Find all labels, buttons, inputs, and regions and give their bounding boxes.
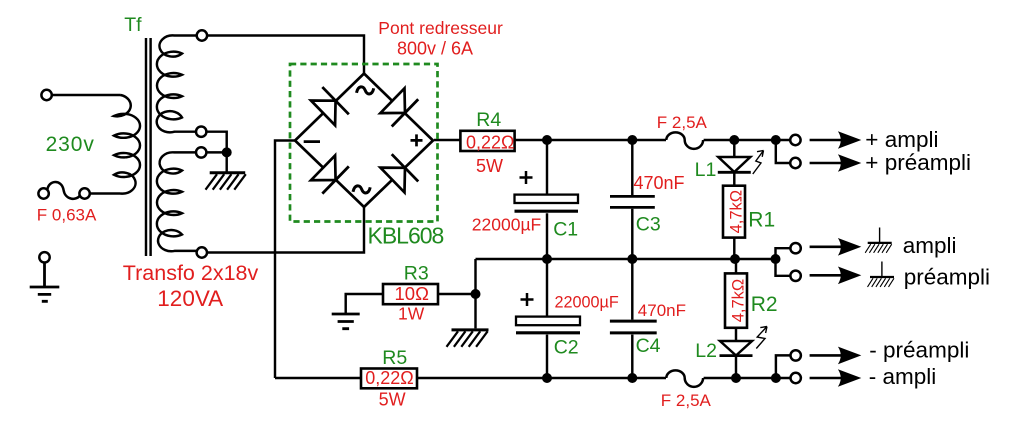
LED L2 flash arrow: [756, 327, 767, 349]
fuse F 2,5A top: [666, 132, 703, 148]
svg-text:C1: C1: [553, 219, 578, 241]
green labels: [46, 14, 778, 369]
transformer core: [146, 38, 151, 256]
ground small ampli output: [865, 228, 892, 253]
svg-text:5W: 5W: [476, 156, 503, 176]
node negative rail at C4: [627, 373, 637, 383]
terminal ground preampli: [790, 271, 800, 281]
svg-text:470nF: 470nF: [634, 173, 685, 193]
svg-text:C2: C2: [554, 337, 579, 359]
terminal center tap 1: [196, 127, 206, 137]
resistor R4: [460, 131, 514, 151]
secondary winding bottom: [157, 152, 197, 251]
node center-tap junction: [222, 147, 232, 157]
svg-text:+ préampli: + préampli: [865, 150, 971, 175]
tilde AC mark bottom: [353, 186, 370, 193]
terminal - preampli: [791, 350, 801, 360]
ground hatched under center tap: [206, 173, 246, 190]
svg-text:R5: R5: [382, 347, 407, 369]
LED L1: [718, 157, 750, 172]
wire center tap ground stem: [225, 152, 227, 171]
diode D4 bottom-right: [379, 154, 418, 193]
terminal - ampli: [791, 373, 801, 383]
node negative output branch: [771, 373, 781, 383]
capacitor C1 electrolytic plates: [515, 195, 579, 203]
minus sign bridge: [304, 140, 320, 143]
node negative rail at C2: [542, 373, 552, 383]
svg-text:+ ampli: + ampli: [865, 127, 938, 152]
svg-text:L2: L2: [695, 340, 717, 362]
diode D1 top-left: [310, 87, 349, 126]
wire negative rail right: [704, 377, 790, 379]
node ground rail at R1/R2: [730, 254, 740, 264]
svg-text:C3: C3: [636, 214, 661, 236]
arrow - ampli shaft: [810, 377, 844, 380]
secondary winding top: [157, 35, 197, 132]
svg-text:1W: 1W: [398, 304, 425, 324]
plus sign C1: [520, 171, 533, 184]
arrow ground preampli shaft: [810, 274, 844, 277]
wire branch ground ampli: [776, 248, 790, 259]
wire C1 column: [546, 140, 548, 259]
capacitor C2 electrolytic plates: [516, 317, 580, 326]
capacitor C4 plates: [610, 321, 657, 333]
svg-text:120VA: 120VA: [157, 286, 223, 311]
bridge rectifier diamond: [295, 74, 433, 208]
svg-text:Tf: Tf: [124, 14, 142, 36]
svg-text:ampli: ampli: [903, 233, 957, 258]
primary winding of transformer Tf: [114, 95, 140, 194]
node positive rail at C1: [542, 135, 552, 145]
svg-text:22000µF: 22000µF: [555, 294, 619, 312]
red labels: [37, 18, 748, 410]
fuse F input 0,63A: [47, 182, 80, 199]
terminal 230v neutral input: [38, 188, 48, 198]
svg-text:10Ω: 10Ω: [395, 283, 430, 304]
svg-text:4,7kΩ: 4,7kΩ: [729, 279, 747, 323]
ground small preampli output: [868, 262, 895, 287]
svg-text:F 0,63A: F 0,63A: [37, 205, 97, 224]
svg-text:- ampli: - ampli: [869, 364, 937, 389]
svg-text:4,7kΩ: 4,7kΩ: [727, 190, 745, 234]
terminal secondary top: [197, 30, 207, 40]
ground hatched under middle rail node: [447, 330, 489, 347]
svg-text:R3: R3: [404, 262, 429, 284]
svg-text:22000µF: 22000µF: [472, 215, 541, 235]
wire primary top lead + input: [52, 94, 121, 96]
wire top rail from transformer to bridge: [207, 36, 364, 74]
arrowhead ground preampli: [838, 267, 861, 285]
svg-text:5W: 5W: [379, 390, 406, 410]
terminal earth input: [39, 252, 49, 262]
terminal fuse F 0,63A output: [79, 188, 89, 198]
terminal secondary bottom: [197, 247, 207, 257]
wire C3 column: [631, 140, 633, 259]
plus sign C2: [521, 293, 534, 306]
arrow ground ampli shaft: [810, 246, 844, 249]
tilde AC mark top: [357, 87, 374, 94]
svg-text:Transfo 2x18v: Transfo 2x18v: [123, 261, 259, 285]
terminal 230v line input: [41, 90, 51, 100]
terminal center tap 2: [196, 147, 206, 157]
plus sign bridge: [411, 134, 423, 146]
resistor R3: [383, 284, 438, 304]
arrowhead + preampli: [838, 154, 861, 172]
arrowhead - preampli: [838, 347, 861, 365]
terminal ground ampli: [790, 243, 800, 253]
arrow + ampli shaft: [810, 139, 844, 142]
wire R3 left to earth: [346, 294, 383, 314]
earth ground left of R3: [332, 314, 360, 329]
svg-text:préampli: préampli: [904, 264, 990, 289]
wire branch - preampli: [776, 355, 790, 378]
wire C4 column: [631, 259, 633, 378]
svg-text:R4: R4: [476, 109, 501, 131]
diode D3 bottom-left: [310, 154, 349, 193]
wire L1 R1 column: [733, 140, 735, 259]
dashed box around bridge: [290, 64, 438, 222]
svg-text:F 2,5A: F 2,5A: [661, 391, 712, 410]
black output labels: [865, 127, 990, 389]
wire branch ground preampli: [776, 259, 790, 276]
svg-text:230v: 230v: [46, 133, 95, 156]
capacitor C3 plates: [610, 196, 655, 207]
arrow - preampli shaft: [810, 354, 844, 357]
node ground rail at C3/C4: [627, 254, 637, 264]
arrowhead + ampli: [838, 131, 861, 149]
svg-text:Pont redresseur: Pont redresseur: [378, 18, 503, 38]
svg-text:0,22Ω: 0,22Ω: [365, 368, 414, 388]
svg-text:- préampli: - préampli: [869, 337, 969, 362]
svg-text:C4: C4: [636, 335, 661, 357]
earth ground input terminal: [30, 263, 60, 302]
node positive output branch: [771, 135, 781, 145]
wire R3 right to node: [438, 293, 476, 295]
LED L1 flash arrow: [753, 151, 764, 175]
wire AC bottom from transformer to bridge: [207, 207, 364, 253]
svg-text:L1: L1: [695, 159, 717, 181]
wire center tap bottom: [206, 151, 226, 153]
svg-text:R1: R1: [748, 208, 775, 231]
terminal + ampli: [790, 135, 800, 145]
wire middle ground rail: [476, 259, 776, 328]
wire minus output of bridge down to negative rail: [275, 141, 295, 379]
arrowhead - ampli: [838, 369, 861, 387]
wire R2 L2 column: [735, 259, 737, 378]
node positive rail at L1: [729, 135, 739, 145]
fuse F 2,5A bottom: [666, 370, 703, 386]
wire AC input bottom lead: [90, 192, 121, 194]
resistor R1: [723, 186, 745, 238]
node ground rail at C1/C2: [542, 254, 552, 264]
wire C2 column: [546, 259, 548, 378]
resistor R2: [725, 273, 747, 327]
diode D2 top-right: [379, 87, 418, 126]
wire positive rail bridge to fuse: [434, 139, 666, 141]
svg-text:KBL608: KBL608: [368, 223, 444, 249]
svg-text:800v / 6A: 800v / 6A: [397, 39, 473, 59]
node positive rail at C3: [627, 135, 637, 145]
wire positive rail fuse to output: [704, 139, 790, 141]
arrowhead ground ampli: [838, 238, 861, 256]
svg-text:F 2,5A: F 2,5A: [657, 113, 708, 132]
wire branch + preampli: [776, 140, 790, 163]
node R3 ground node: [471, 289, 481, 299]
svg-text:R2: R2: [751, 293, 778, 316]
terminal + preampli: [790, 158, 800, 168]
node ground output branch: [771, 254, 781, 264]
arrow + preampli shaft: [810, 162, 844, 165]
wire center tap top: [206, 132, 226, 153]
LED L2: [720, 341, 752, 356]
resistor R5: [361, 369, 417, 389]
svg-text:0,22Ω: 0,22Ω: [466, 132, 515, 152]
wire negative rail left: [275, 377, 666, 379]
node negative rail at L2: [731, 373, 741, 383]
svg-text:470nF: 470nF: [638, 301, 686, 320]
